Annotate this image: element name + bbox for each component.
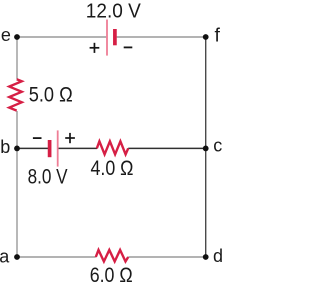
svg-text:a: a [0,246,10,266]
svg-text:6.0 Ω: 6.0 Ω [90,264,133,287]
svg-text:8.0 V: 8.0 V [28,166,68,189]
svg-text:d: d [213,246,223,266]
svg-text:c: c [213,136,222,156]
svg-text:b: b [0,137,10,157]
svg-text:4.0 Ω: 4.0 Ω [91,157,134,180]
svg-text:5.0 Ω: 5.0 Ω [29,83,73,106]
svg-text:12.0 V: 12.0 V [86,0,141,23]
svg-text:e: e [1,25,11,45]
svg-text:f: f [214,25,220,47]
